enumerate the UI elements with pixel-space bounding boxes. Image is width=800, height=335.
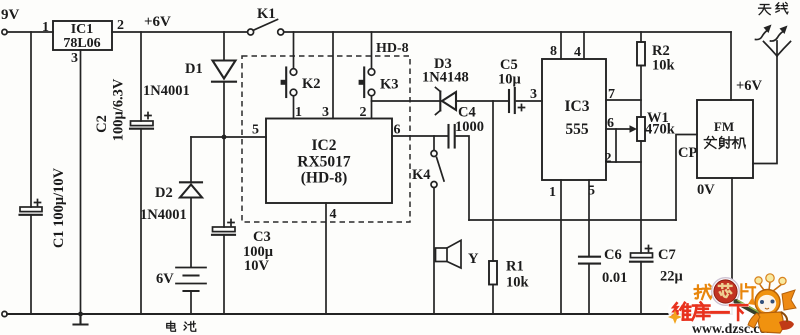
- watermark yi char red: [712, 311, 729, 313]
- svg-text:HD-8: HD-8: [376, 41, 409, 56]
- watermark wei char red: [673, 303, 691, 320]
- wire IC3 pin7 to R2: [606, 99, 641, 101]
- svg-text:6V: 6V: [156, 271, 174, 287]
- mascot face: [758, 295, 776, 312]
- mascot body: [758, 312, 783, 333]
- svg-text:D1: D1: [185, 61, 203, 77]
- label FM transmitter (CJK): [704, 137, 716, 149]
- svg-text:K3: K3: [380, 77, 399, 93]
- ground symbol: [79, 314, 81, 324]
- wire C3 to ground rail: [223, 235, 225, 314]
- wire W1 bottom down: [640, 141, 642, 253]
- svg-text:K2: K2: [302, 76, 321, 92]
- watermark magnifier handle: [736, 302, 765, 318]
- svg-text:10k: 10k: [652, 58, 676, 74]
- wire CP riser: [676, 135, 697, 221]
- svg-text:C7: C7: [658, 247, 676, 263]
- wire IC3 pin6 to W1 wiper: [606, 128, 631, 130]
- watermark pian char: [741, 284, 755, 298]
- wire K2 to IC2 pin1: [293, 96, 295, 119]
- wire D2 anode to battery: [190, 198, 192, 268]
- watermark stamp ring: [712, 278, 740, 306]
- svg-text:1N4001: 1N4001: [143, 83, 190, 99]
- svg-text:5: 5: [252, 123, 259, 138]
- svg-text:1: 1: [42, 20, 49, 35]
- svg-text:FM: FM: [714, 119, 734, 134]
- svg-text:0V: 0V: [697, 182, 715, 198]
- mascot tail strap: [781, 312, 787, 322]
- watermark ku char red: [692, 302, 709, 320]
- wire left branch down to C1: [30, 32, 32, 207]
- wire IC2 pin6 to C4: [392, 135, 447, 137]
- wire K3 branch from rail: [371, 32, 373, 69]
- capacitor C4 1000: [447, 125, 449, 148]
- svg-text:IC1: IC1: [71, 22, 94, 37]
- wire pin6 to pin2 link: [615, 129, 617, 162]
- wire top +6V rail K1 to FM feed: [284, 31, 731, 33]
- watermark xin char in stamp: [719, 284, 732, 297]
- wire C7 to ground rail: [640, 262, 642, 314]
- node ground terminal bottom left: [2, 311, 7, 316]
- wire K2 branch from rail: [293, 32, 295, 69]
- svg-text:4: 4: [330, 207, 337, 222]
- resistor R1 10k: [489, 261, 497, 285]
- capacitor C5 10u: [508, 90, 510, 112]
- node junction dot at ground: [78, 312, 83, 317]
- wire top +6V rail IC1 pin2 to K1: [112, 31, 247, 33]
- potentiometer W1 470k: [637, 117, 645, 141]
- svg-text:Y: Y: [468, 251, 479, 267]
- wire R2 to W1: [640, 66, 642, 118]
- wire IC1 pin3 down to ground rail: [80, 50, 82, 314]
- FM transmitter box: [697, 100, 753, 178]
- capacitor C7 22u: [631, 253, 653, 258]
- mascot balls: [755, 277, 762, 284]
- wire IC2 pin5 horizontal: [191, 136, 266, 138]
- svg-text:C6: C6: [604, 247, 622, 263]
- mascot shoe: [779, 320, 794, 330]
- capacitor C2 100u/6.3V: [131, 121, 154, 126]
- antenna: [764, 41, 791, 56]
- svg-text:CP: CP: [678, 145, 697, 161]
- label antenna (CJK): [759, 5, 771, 15]
- wire down to D2: [190, 137, 192, 182]
- wire IC2 pin4 to ground rail: [325, 203, 327, 314]
- wire C1 to ground rail: [30, 215, 32, 314]
- wire IC3 pin5 down to C6: [588, 180, 590, 256]
- svg-text:78L06: 78L06: [63, 36, 100, 51]
- wire K4 branch: [433, 136, 435, 150]
- wire K3 node to D3: [372, 100, 440, 102]
- wire IC3 pin2: [606, 161, 641, 163]
- svg-text:C3: C3: [253, 229, 271, 245]
- diode D2 1N4001: [180, 181, 202, 183]
- wire D3 cathode to C5: [456, 100, 508, 102]
- watermark zhao char: [695, 285, 712, 299]
- speaker Y: [436, 248, 448, 262]
- mascot left ear: [748, 296, 755, 305]
- diode D1 1N4001: [213, 61, 236, 79]
- mascot arm left: [748, 313, 760, 328]
- wire ground rail: [7, 313, 732, 315]
- svg-text:IC2: IC2: [312, 137, 337, 154]
- IC1 regulator 78L06: [53, 21, 112, 50]
- wire IC3 pin1 to ground rail: [560, 180, 562, 314]
- wire FM ground to rail: [731, 178, 733, 314]
- wire junction down to R1: [492, 101, 494, 261]
- mascot hood: [755, 290, 780, 315]
- wire 9V terminal to IC1 pin1: [7, 31, 53, 33]
- dashed module box HD-8: [242, 56, 410, 222]
- svg-text:R1: R1: [506, 259, 524, 275]
- svg-text:3: 3: [71, 51, 78, 66]
- svg-text:9V: 9V: [1, 7, 20, 23]
- wire C6 to ground rail: [588, 264, 590, 314]
- wire IC3 pin4 to rail: [583, 32, 585, 59]
- node junction D1/D2/C3/pin5: [222, 135, 227, 140]
- antenna radiation arrows: [756, 30, 769, 40]
- svg-text:100μ/6.3V: 100μ/6.3V: [111, 78, 127, 141]
- svg-text:0.01: 0.01: [602, 270, 627, 286]
- svg-text:6: 6: [607, 116, 614, 131]
- IC2 music chip RX5017: [266, 119, 392, 204]
- svg-text:C1 100μ/10V: C1 100μ/10V: [51, 167, 67, 248]
- wiper arrow of W1: [630, 125, 638, 132]
- svg-text:7: 7: [608, 87, 615, 102]
- svg-text:1N4148: 1N4148: [422, 70, 469, 86]
- label battery (CJK): [167, 321, 176, 331]
- svg-text:+6V: +6V: [736, 78, 763, 94]
- watermark xia char red: [730, 305, 747, 320]
- pushbutton K2: [290, 69, 297, 76]
- svg-text:K1: K1: [257, 6, 276, 22]
- svg-text:10V: 10V: [244, 258, 270, 274]
- watermark sparkle: [668, 310, 682, 324]
- wire K3 to IC2 pin2: [371, 96, 373, 119]
- wire battery minus to ground rail: [190, 291, 192, 314]
- switch K1: [248, 29, 254, 35]
- wire IC3 pin8 to rail: [560, 32, 562, 59]
- svg-text:470k: 470k: [645, 122, 676, 138]
- svg-text:RX5017: RX5017: [297, 154, 351, 171]
- wire D1 cathode to node: [223, 83, 225, 137]
- switch K4: [431, 151, 437, 157]
- wire R1 to ground rail: [492, 285, 494, 315]
- wire IC2 pin3 to rail: [332, 32, 334, 119]
- wire D1 branch from +6V rail: [223, 32, 225, 60]
- svg-text:555: 555: [565, 121, 589, 138]
- svg-text:IC3: IC3: [565, 98, 590, 115]
- watermark wei ku yi xia red text halo: [673, 302, 747, 320]
- mascot eyes: [760, 300, 764, 304]
- svg-text:+6V: +6V: [144, 14, 171, 30]
- wire C2 branch from +6V rail: [140, 32, 142, 121]
- wire C5 to IC3 pin3: [517, 100, 543, 102]
- resistor R2 10k: [637, 42, 645, 66]
- battery 6V: [176, 267, 206, 269]
- svg-text:K4: K4: [412, 167, 431, 183]
- svg-text:1N4001: 1N4001: [140, 207, 187, 223]
- svg-text:C2: C2: [94, 115, 110, 133]
- wire K4 to ground rail: [433, 188, 435, 314]
- svg-text:1000: 1000: [455, 119, 484, 135]
- wire C4 right then down to audio bus: [456, 136, 469, 220]
- svg-text:3: 3: [530, 87, 537, 102]
- diode D3 1N4148: [439, 92, 441, 111]
- capacitor C1 100u/10V: [20, 207, 42, 212]
- svg-text:5: 5: [588, 184, 595, 199]
- IC3 timer 555: [542, 59, 606, 180]
- wire FM output to antenna: [753, 56, 777, 164]
- svg-text:4: 4: [574, 45, 581, 60]
- svg-text:10k: 10k: [506, 275, 530, 291]
- svg-text:(HD-8): (HD-8): [301, 170, 348, 187]
- mascot right flag: [782, 290, 796, 310]
- wire R2 top from rail: [640, 32, 642, 42]
- pushbutton K3: [368, 69, 375, 76]
- svg-text:8: 8: [550, 44, 557, 59]
- wire node down to C3: [223, 137, 225, 227]
- svg-text:2: 2: [117, 18, 124, 33]
- node 9V input terminal: [2, 29, 7, 34]
- svg-text:D2: D2: [155, 185, 173, 201]
- wire C2 to ground rail: [140, 129, 142, 314]
- svg-text:10μ: 10μ: [498, 72, 522, 88]
- capacitor C6 0.01: [579, 256, 600, 258]
- svg-text:1: 1: [549, 185, 556, 200]
- wire audio bus horizontal: [469, 219, 676, 221]
- mascot stalks: [759, 282, 782, 291]
- wire +6V feed to FM box: [730, 32, 732, 100]
- svg-text:2: 2: [605, 151, 612, 166]
- capacitor C3 100u/10V: [213, 227, 236, 232]
- watermark white halo: [678, 290, 780, 329]
- svg-text:22μ: 22μ: [660, 269, 684, 285]
